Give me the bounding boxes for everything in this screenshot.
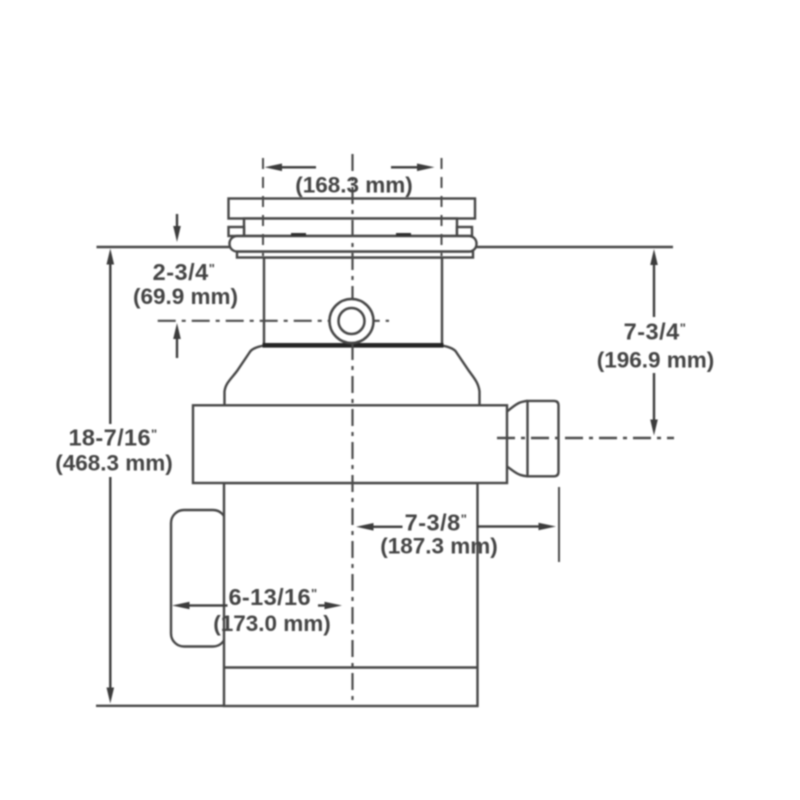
dim 6-13/16 left arrow: [172, 602, 190, 610]
sink line right: [477, 246, 674, 248]
dim 18-7/16 line upper: [109, 263, 111, 424]
dim 2-3/4 up arrow: [173, 323, 181, 339]
neck (upper body): [264, 258, 442, 345]
svg-text:18-7/16": 18-7/16": [68, 425, 157, 451]
extension line top-left: [262, 158, 264, 256]
outlet stub top: [507, 401, 528, 412]
extension line outlet right: [558, 487, 560, 562]
gasket screw mark right: [396, 233, 411, 236]
floor line: [96, 705, 224, 707]
mounting ring under flange: [244, 219, 457, 237]
svg-text:(196.9 mm): (196.9 mm): [597, 348, 715, 373]
dim 7-3/8 right arrow: [477, 525, 541, 527]
dim 18-7/16 line lower: [109, 477, 111, 689]
outlet stub bottom: [507, 467, 528, 477]
neck bottom thick line: [263, 343, 444, 348]
svg-text:7-3/8": 7-3/8": [405, 510, 468, 536]
mid band (mounting ring): [193, 405, 507, 483]
dim 168.3 left arrow: [265, 164, 283, 172]
dishwasher inlet boss inner: [339, 308, 365, 334]
flange tab right: [457, 227, 472, 236]
dim 2-3/4 down arrow: [176, 214, 178, 228]
extension line top-right: [441, 158, 443, 256]
sink line left: [97, 246, 230, 248]
dishwasher inlet boss outer: [330, 299, 374, 343]
outlet fitting: [528, 401, 559, 476]
dim 7-3/4 line upper: [653, 264, 655, 317]
dim 7-3/8 left arrow: [356, 523, 374, 531]
dim 7-3/4 line lower: [653, 373, 655, 421]
svg-text:(173.0 mm): (173.0 mm): [213, 611, 331, 636]
vertical centerline lower: [351, 343, 353, 707]
gasket screw mark left: [291, 233, 306, 236]
svg-text:(69.9 mm): (69.9 mm): [133, 284, 238, 309]
centerlines: [158, 154, 389, 707]
svg-text:(468.3 mm): (468.3 mm): [55, 451, 173, 476]
sink flange top: [229, 199, 476, 219]
flare left: [225, 346, 265, 407]
gasket band: [230, 236, 477, 252]
svg-text:6-13/16": 6-13/16": [228, 584, 317, 610]
dimension lines and arrows: [107, 164, 658, 704]
lower body: [224, 483, 478, 706]
vertical centerline upper: [351, 154, 353, 298]
flange tab left: [229, 227, 245, 236]
dim 168.3 right arrow: [417, 164, 435, 172]
svg-text:(187.3 mm): (187.3 mm): [380, 534, 498, 559]
lower band under gasket: [237, 252, 473, 258]
svg-text:2-3/4": 2-3/4": [153, 259, 216, 285]
dim 6-13/16 right arrow: [318, 604, 328, 606]
inlet centerline: [158, 320, 389, 322]
side attachment (left cover): [171, 510, 226, 647]
base top line: [224, 666, 478, 668]
svg-text:(168.3 mm): (168.3 mm): [295, 173, 413, 198]
outlet centerline: [497, 437, 674, 440]
svg-text:7-3/4": 7-3/4": [624, 319, 687, 345]
flare right: [442, 346, 480, 407]
